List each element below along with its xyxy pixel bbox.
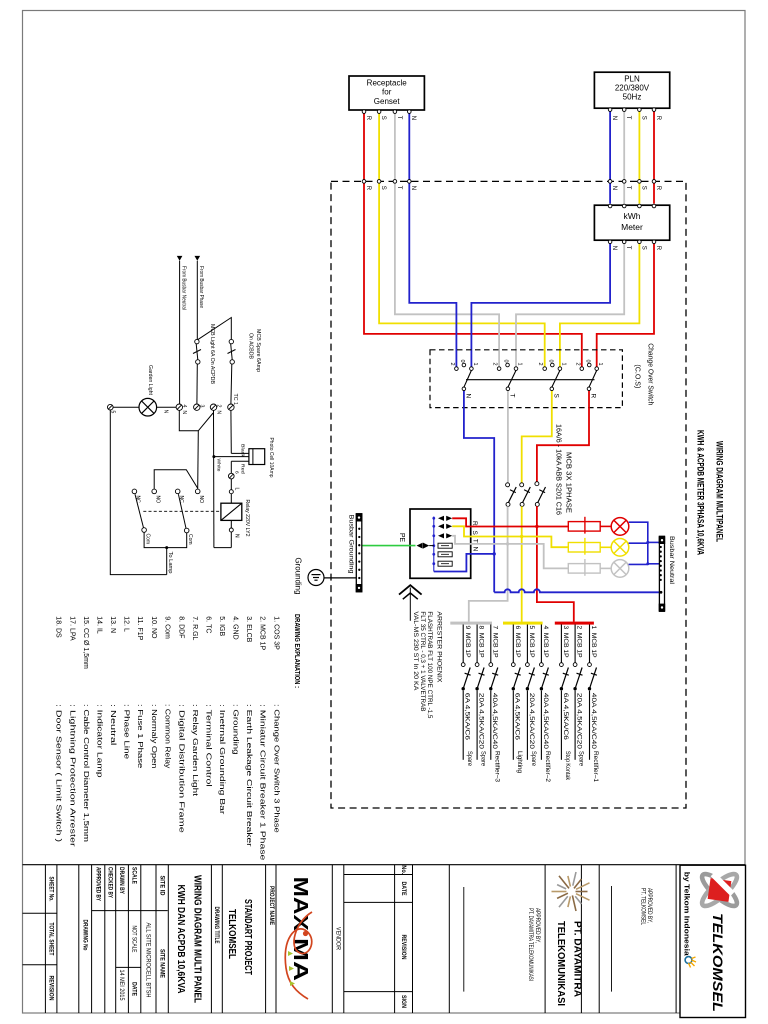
ddf terminal block row 5: [438, 552, 452, 557]
mcb4 bottom contact: [540, 687, 543, 690]
wire ddf S internal and to fuse: [452, 526, 568, 547]
svg-text:N: N: [611, 116, 617, 120]
wire cos R to mcb3x: [537, 408, 589, 482]
wire photocell red: [231, 460, 249, 462]
svg-text:Spare: Spare: [530, 751, 537, 767]
svg-text:R: R: [655, 246, 661, 251]
junction ddf S x mcb3x yellow: [520, 535, 523, 538]
junction white wire: [212, 455, 215, 458]
wire grounding green: [362, 545, 416, 547]
wire relay N down: [230, 532, 232, 548]
svg-text:Photo Cell 10Amp: Photo Cell 10Amp: [268, 438, 274, 478]
grounding symbol: [308, 570, 324, 586]
svg-text:: Indicator Lamp: : Indicator Lamp: [95, 704, 102, 778]
wire cos S to mcb3x: [522, 408, 552, 483]
svg-text:: Inetrnal Grounding Bar: : Inetrnal Grounding Bar: [218, 704, 225, 815]
pln terminal S: [638, 108, 642, 112]
svg-text:9 MCB 1P: 9 MCB 1P: [464, 626, 471, 658]
svg-text:Com: Com: [187, 534, 193, 545]
svg-text:2 MCB 1P: 2 MCB 1P: [576, 626, 583, 658]
svg-text:PE: PE: [398, 533, 405, 542]
mcb3x pole T bottom contact: [506, 502, 510, 506]
svg-text:DRAWING TITLE: DRAWING TITLE: [213, 907, 220, 944]
svg-text:SHEET No.: SHEET No.: [47, 877, 54, 902]
svg-text:2: 2: [449, 363, 455, 366]
svg-text:No.: No.: [400, 865, 407, 874]
svg-text:20A 4,5KA/C20: 20A 4,5KA/C20: [478, 693, 485, 750]
wire kwh N blue: [471, 244, 610, 367]
telkomsel logo sun glyph: [685, 957, 696, 968]
genset wire border crossing S: [377, 180, 381, 184]
receptacle for genset box: [349, 76, 424, 110]
pln terminal N: [608, 108, 612, 112]
busbar grounding top cap: [356, 514, 363, 522]
svg-text:S: S: [640, 116, 646, 120]
svg-text:Receptacle: Receptacle: [367, 78, 408, 87]
svg-text:Genset: Genset: [374, 97, 401, 106]
wire kwh T gray: [516, 244, 624, 367]
svg-text:FLT 35 CTRL - 0,3 + 1 VALVETRA: FLT 35 CTRL - 0,3 + 1 VALVETRAB: [419, 611, 425, 711]
genset wire border crossing N: [408, 180, 412, 184]
mcb7 bottom contact: [489, 687, 492, 690]
svg-text:8 MCB 1P: 8 MCB 1P: [478, 626, 485, 658]
svg-text:APPROVED BY,: APPROVED BY,: [534, 908, 540, 943]
svg-text:TELKOMSEL: TELKOMSEL: [710, 913, 725, 1012]
svg-text:Com: Com: [144, 534, 150, 545]
svg-text:TC 1: TC 1: [232, 394, 238, 406]
wire L to relay: [230, 494, 232, 504]
blade com2-nc2: [178, 494, 186, 528]
svg-text:: Change Over Switch 3 Phase: : Change Over Switch 3 Phase: [272, 704, 279, 833]
ddf rail dot row 2: [432, 525, 435, 528]
svg-text:WIRING DIAGRAM MULTIPANEL: WIRING DIAGRAM MULTIPANEL: [715, 441, 725, 542]
fuse F1P control: [229, 473, 235, 479]
svg-text:6A 4,5KA/C6: 6A 4,5KA/C6: [562, 693, 569, 741]
svg-text:T: T: [396, 116, 402, 120]
svg-text:Meter: Meter: [621, 222, 643, 232]
svg-text:APPROVED BY,: APPROVED BY,: [646, 888, 652, 923]
svg-text:7. R.GL: 7. R.GL: [191, 616, 198, 640]
wire tc1 phase down: [230, 410, 232, 453]
mcb2 top contact: [573, 663, 577, 667]
mcb7 top contact: [489, 663, 493, 667]
svg-text:N: N: [410, 116, 416, 120]
svg-text:10. NO: 10. NO: [150, 616, 157, 639]
cos output contact pole S: [550, 387, 554, 391]
svg-text:Busbar Neutral: Busbar Neutral: [668, 536, 675, 584]
svg-text:220/380V: 220/380V: [615, 84, 650, 93]
MCB 1P branch 9: [461, 625, 473, 767]
svg-text:9. Com: 9. Com: [163, 616, 170, 639]
mcb3 top contact: [560, 663, 564, 667]
cos contact 0 pole T: [506, 363, 510, 367]
mcb3x pole S top contact: [520, 483, 524, 487]
cos contact 2 pole R: [580, 367, 584, 371]
svg-text:MA: MA: [289, 938, 311, 981]
fuse F1P phase R: [568, 517, 600, 534]
busbar neutral terminal dots: [660, 546, 662, 581]
svg-text:1 MCB 1P: 1 MCB 1P: [590, 626, 597, 658]
busbar neutral bottom cap: [659, 604, 666, 612]
svg-text:KWH & ACPDB METER 3PHASA 10,6K: KWH & ACPDB METER 3PHASA 10,6KVA: [696, 430, 706, 555]
contact NC2: [175, 489, 180, 494]
svg-text:: Grounding: : Grounding: [231, 704, 238, 755]
relay R.GL coil: [221, 503, 242, 520]
cos contact 1 pole T: [514, 367, 518, 371]
cos output contact pole R: [587, 387, 591, 391]
cos contact 1 pole R: [595, 367, 599, 371]
wire pln N blue: [609, 111, 611, 203]
svg-text:2: 2: [574, 363, 580, 366]
ddf internal terminal rail: [433, 517, 435, 572]
svg-text:T: T: [625, 246, 631, 250]
svg-text:6A 4,5KA/C6: 6A 4,5KA/C6: [464, 693, 471, 741]
svg-text:Rectifier–1: Rectifier–1: [592, 751, 599, 783]
svg-text:12. L: 12. L: [123, 616, 130, 632]
svg-text:KWH DAN ACPDB 10,6KVA: KWH DAN ACPDB 10,6KVA: [175, 885, 187, 994]
svg-text:kWh: kWh: [624, 211, 641, 221]
kwh meter top terminal N: [608, 204, 612, 208]
ddf rail dot row 5: [432, 553, 435, 556]
wire S below mcb3x to yellow bus: [521, 506, 523, 621]
svg-text:SCALE: SCALE: [130, 867, 137, 884]
wire grounding to busbar: [324, 577, 356, 579]
mcb8 top contact: [475, 663, 479, 667]
ddf rail dot row 3: [432, 534, 435, 537]
busbar grounding bar: [356, 514, 362, 592]
yellow distribution bus: [503, 622, 543, 625]
pln wire border crossing T: [622, 180, 626, 184]
wire pln T gray: [623, 111, 625, 203]
indicator lamp S: [611, 539, 629, 557]
kwh meter top terminal R: [652, 204, 656, 208]
svg-text:4 N: 4 N: [181, 405, 187, 415]
svg-text:: Door Sensor ( Limit Switch ): : Door Sensor ( Limit Switch ): [54, 704, 61, 842]
junction neutral line at busbar: [660, 591, 663, 594]
wire neutral feed: [179, 261, 181, 404]
svg-text:DRAWING EXPLANATION :: DRAWING EXPLANATION :: [293, 614, 302, 688]
svg-text:: Neutral: : Neutral: [109, 704, 116, 746]
svg-text:6: 6: [234, 471, 240, 474]
svg-text:R: R: [365, 186, 371, 191]
svg-text:16A/6 - 10kA ABB S201 C16: 16A/6 - 10kA ABB S201 C16: [554, 424, 561, 515]
genset terminal T: [393, 110, 397, 114]
kWh meter box: [594, 205, 669, 240]
mcb4 top contact: [540, 663, 544, 667]
svg-text:T: T: [625, 186, 631, 190]
svg-text:Lighting: Lighting: [516, 751, 523, 774]
svg-text:Garden Light: Garden Light: [147, 365, 153, 396]
ddf pe arrester bowtie: [417, 543, 430, 549]
svg-text:Spare: Spare: [480, 751, 487, 767]
svg-text:R: R: [471, 521, 478, 526]
MCB 1P branch 2: [573, 625, 585, 767]
panel dashed border: [331, 181, 686, 808]
wire fuse to lamp T: [600, 567, 611, 569]
mcb9 bottom contact: [462, 687, 465, 690]
svg-text:20A 4,5KA/C20: 20A 4,5KA/C20: [528, 693, 535, 750]
wire red to fuse: [230, 461, 232, 473]
kwh meter bottom terminal N: [608, 240, 612, 244]
svg-text:: Earth Leakage Circuit Breake: : Earth Leakage Circuit Breaker: [245, 704, 252, 848]
terminal control 4: [176, 404, 182, 410]
wire T below mcb3x to gray bus: [469, 506, 508, 621]
svg-text:VENDOR: VENDOR: [334, 927, 341, 951]
svg-text:50Hz: 50Hz: [623, 93, 642, 102]
wire NO1 to NO2: [154, 470, 198, 489]
signature line telkomsel: [611, 886, 613, 992]
cos output wire N: [463, 391, 465, 408]
mcb3x pole T: [506, 483, 517, 507]
svg-text:T: T: [509, 394, 516, 398]
cos output contact pole N: [462, 387, 466, 391]
ddf terminal block row 4: [438, 543, 452, 548]
svg-text:Rectifier–2: Rectifier–2: [544, 751, 551, 783]
wire fuse to lamp S: [600, 546, 611, 548]
wire lamp bus to busbar lower: [648, 563, 660, 565]
MCB 1P branch 8: [475, 625, 487, 767]
wire cos N to neutral line: [464, 408, 494, 593]
svg-text:Spare: Spare: [578, 751, 585, 767]
svg-text:PLN: PLN: [624, 75, 640, 84]
signature line mitratel: [463, 887, 465, 992]
wire phase feed: [196, 261, 198, 340]
svg-text:5 MCB 1P: 5 MCB 1P: [528, 626, 535, 658]
cos output wire R: [588, 391, 590, 408]
svg-text:S: S: [640, 246, 646, 250]
wire to lamp down: [166, 548, 168, 575]
svg-text:: Relay Garden Light: : Relay Garden Light: [191, 704, 198, 796]
svg-text:: Terminal Control: : Terminal Control: [204, 704, 211, 787]
wire neutral join: [214, 547, 231, 549]
svg-text:: Normaly Open: : Normaly Open: [150, 704, 157, 769]
svg-text:L: L: [234, 488, 240, 491]
svg-text:S: S: [553, 394, 560, 399]
wire mcb spare to tc1: [230, 364, 233, 404]
svg-text:40A 4,5KA/C40: 40A 4,5KA/C40: [491, 693, 498, 750]
svg-text:3: 3: [199, 405, 205, 408]
svg-text:SIGN: SIGN: [400, 995, 407, 1008]
wire main neutral with hops: [494, 589, 659, 592]
kwh meter bottom terminal S: [638, 240, 642, 244]
kwh meter top terminal S: [638, 204, 642, 208]
svg-text:1. COS 3P: 1. COS 3P: [272, 616, 279, 650]
svg-text:Grounding: Grounding: [293, 558, 302, 595]
title block top border: [23, 864, 746, 866]
wire pln R red: [653, 111, 655, 203]
wire branch to spare breaker: [198, 318, 231, 340]
wire R below mcb3x to red bus: [537, 506, 574, 622]
junction ddf R x mcb3x red: [535, 525, 538, 528]
svg-text:DATE: DATE: [130, 982, 137, 996]
svg-text:N: N: [611, 246, 617, 250]
svg-text:ARRESTER PHOENIX: ARRESTER PHOENIX: [436, 611, 442, 682]
busbar grounding terminal dots: [358, 528, 360, 580]
ddf arrester element row 1: [438, 516, 452, 521]
svg-text:3 MCB 1P: 3 MCB 1P: [562, 626, 569, 658]
wire com bus: [144, 532, 187, 547]
svg-text:N: N: [611, 186, 617, 190]
svg-text:NC: NC: [178, 496, 184, 504]
cos pole S: [537, 360, 566, 408]
mcb3x pole T top contact: [506, 483, 510, 487]
svg-text:CHECKED BY: CHECKED BY: [106, 867, 113, 898]
svg-text:S: S: [640, 186, 646, 190]
svg-text:PT. DAYAMITRA: PT. DAYAMITRA: [572, 921, 584, 997]
svg-text:R: R: [590, 394, 597, 399]
wire genset N blue: [409, 113, 456, 366]
relay terminal N: [229, 528, 233, 532]
wire ddf T internal and to fuse: [452, 536, 568, 569]
cos contact 2 pole T: [497, 367, 501, 371]
genset terminal S: [377, 110, 381, 114]
MCB 1P branch 3: [560, 625, 572, 781]
contact Com2: [184, 528, 189, 533]
svg-text:14. IL: 14. IL: [95, 616, 102, 634]
svg-text:0: 0: [459, 360, 465, 363]
mcb3x pole S bottom contact: [520, 502, 524, 506]
svg-text:11. F1P: 11. F1P: [136, 616, 143, 640]
svg-text:2: 2: [492, 363, 498, 366]
svg-text:14 MEI 2015: 14 MEI 2015: [118, 970, 125, 1002]
garden light lamp: [139, 398, 157, 416]
MCB 1P branch 5: [526, 625, 538, 767]
svg-text:: Phase Line: : Phase Line: [123, 704, 130, 759]
contact NO2: [195, 489, 200, 494]
svg-text:MCB Spare 6Amp: MCB Spare 6Amp: [255, 329, 261, 372]
pln terminal R: [652, 108, 656, 112]
svg-text:4 MCB 1P: 4 MCB 1P: [542, 626, 549, 658]
svg-text:R: R: [365, 116, 371, 121]
MCB 1P branch 6: [511, 625, 523, 774]
svg-text:MCB Light 6A On ACPDB: MCB Light 6A On ACPDB: [209, 324, 215, 384]
svg-text:FLASHTRAB FLT 100 NPE CTRL -1,: FLASHTRAB FLT 100 NPE CTRL -1,5: [426, 611, 432, 719]
svg-text:NOT SCALE: NOT SCALE: [130, 926, 137, 953]
svg-text:Rectifier–3: Rectifier–3: [493, 751, 500, 783]
ddf rail dot row 1: [432, 517, 435, 520]
wire fuse to lamp R: [600, 525, 611, 527]
svg-text:17. LPA: 17. LPA: [68, 616, 75, 641]
svg-text:18. DS: 18. DS: [54, 616, 61, 638]
svg-text:Spare: Spare: [466, 751, 473, 767]
mcb spare bottom contact: [230, 360, 234, 364]
svg-text:0: 0: [584, 360, 590, 363]
relay mechanical dashed link: [143, 510, 221, 512]
svg-text:ALL SITE MICROCELL BTSH: ALL SITE MICROCELL BTSH: [144, 923, 151, 998]
wire mcb light to tc3: [196, 364, 198, 404]
svg-text:Change Over Switch: Change Over Switch: [646, 343, 655, 405]
change over switch dashed box: [430, 350, 622, 408]
svg-text:White: White: [216, 459, 222, 472]
fuse F1P phase T: [568, 559, 600, 576]
svg-text:: Common Relay: : Common Relay: [163, 704, 170, 769]
svg-text:To Lamp: To Lamp: [167, 552, 173, 574]
PLN box: [594, 72, 669, 108]
svg-text:TELKOMSEL: TELKOMSEL: [226, 909, 237, 959]
svg-text:From Busbar Neutral: From Busbar Neutral: [180, 266, 186, 310]
svg-text:1: 1: [560, 363, 566, 366]
svg-text:From Busbar Phase: From Busbar Phase: [198, 266, 204, 308]
cos output wire T: [507, 391, 509, 408]
svg-text:REVISION: REVISION: [400, 935, 407, 960]
wire lamp R to neutral bus: [629, 522, 648, 564]
title block column lines: [45, 865, 680, 1013]
pln terminal T: [622, 108, 626, 112]
svg-text:S: S: [380, 116, 386, 120]
busbar neutral bar: [659, 536, 664, 611]
contact NO1: [152, 489, 157, 494]
ddf arrester element row 3: [438, 533, 452, 538]
mcb1 top contact: [588, 663, 592, 667]
svg-text:N: N: [471, 547, 478, 552]
pln wire border crossing R: [652, 180, 656, 184]
svg-text:NO: NO: [198, 496, 204, 504]
mcb6 bottom contact: [512, 687, 515, 690]
ddf rail dot row 4: [432, 544, 435, 547]
MCB 1P branch 7: [489, 625, 501, 783]
wire genset T gray: [395, 113, 499, 366]
terminal control 1: [228, 404, 234, 410]
svg-text:N: N: [465, 394, 472, 399]
svg-text:1: 1: [597, 363, 603, 366]
cos contact 1 pole S: [558, 367, 562, 371]
breaker MCB Light 6A: [193, 344, 201, 360]
arrester ground arrow: [399, 585, 422, 621]
cos contact 0 pole R: [587, 363, 591, 367]
ddf rail dot row 6: [432, 562, 435, 565]
svg-text:VAL-MS 230 ST In 20 KA: VAL-MS 230 ST In 20 KA: [412, 611, 418, 690]
svg-text:6A 4,5KA/C6: 6A 4,5KA/C6: [514, 693, 521, 741]
wire lamp bus to busbar upper: [648, 541, 660, 543]
svg-text:REVISION: REVISION: [47, 976, 54, 1001]
cos contact 0 pole N: [462, 363, 466, 367]
MAXIMA logo: [285, 877, 312, 999]
wire photocell black: [231, 452, 249, 454]
svg-text:3. ELCB: 3. ELCB: [245, 616, 252, 642]
terminal control 2: [210, 404, 216, 410]
mcb light top contact: [195, 339, 199, 343]
kwh meter bottom terminal T: [622, 240, 626, 244]
svg-text:MCB 3X 1PHASE: MCB 3X 1PHASE: [565, 452, 572, 513]
cos pole R: [574, 360, 603, 408]
svg-text:6. TC: 6. TC: [204, 616, 211, 633]
from busbar phase arrow: [195, 256, 201, 261]
svg-text:Red: Red: [240, 464, 246, 474]
svg-text:0: 0: [547, 360, 553, 363]
junction ddf N on cos neutral drop: [493, 552, 496, 555]
busbar grounding bottom cap: [356, 584, 363, 592]
cos contact 2 pole S: [543, 367, 547, 371]
svg-text:2 N: 2 N: [215, 405, 221, 415]
wire lamp right: [157, 406, 177, 408]
svg-text:: Cable Control Diameter 1,5mm: : Cable Control Diameter 1,5mm: [82, 704, 89, 842]
mcb9 top contact: [461, 663, 465, 667]
contact Com1: [142, 528, 147, 533]
svg-text:N: N: [163, 410, 169, 414]
wire lamp return left: [110, 410, 166, 575]
wire lamp S stub: [629, 542, 648, 544]
ddf terminal block row 6: [438, 561, 452, 566]
MCB 1P branch 4: [540, 625, 552, 783]
svg-text:2. MCB 1P: 2. MCB 1P: [259, 616, 266, 650]
svg-text:WIRING DIAGRAM MULTI PANEL: WIRING DIAGRAM MULTI PANEL: [192, 875, 204, 1003]
genset terminal N: [408, 110, 412, 114]
svg-text:by Telkom Indonesia: by Telkom Indonesia: [683, 872, 690, 956]
mcb light bottom contact: [196, 360, 200, 364]
svg-text:15. CC Ø 1,5mm: 15. CC Ø 1,5mm: [82, 616, 89, 669]
junction ddf T x mcb3x gray: [506, 542, 509, 545]
mcb5 bottom contact: [526, 687, 529, 690]
